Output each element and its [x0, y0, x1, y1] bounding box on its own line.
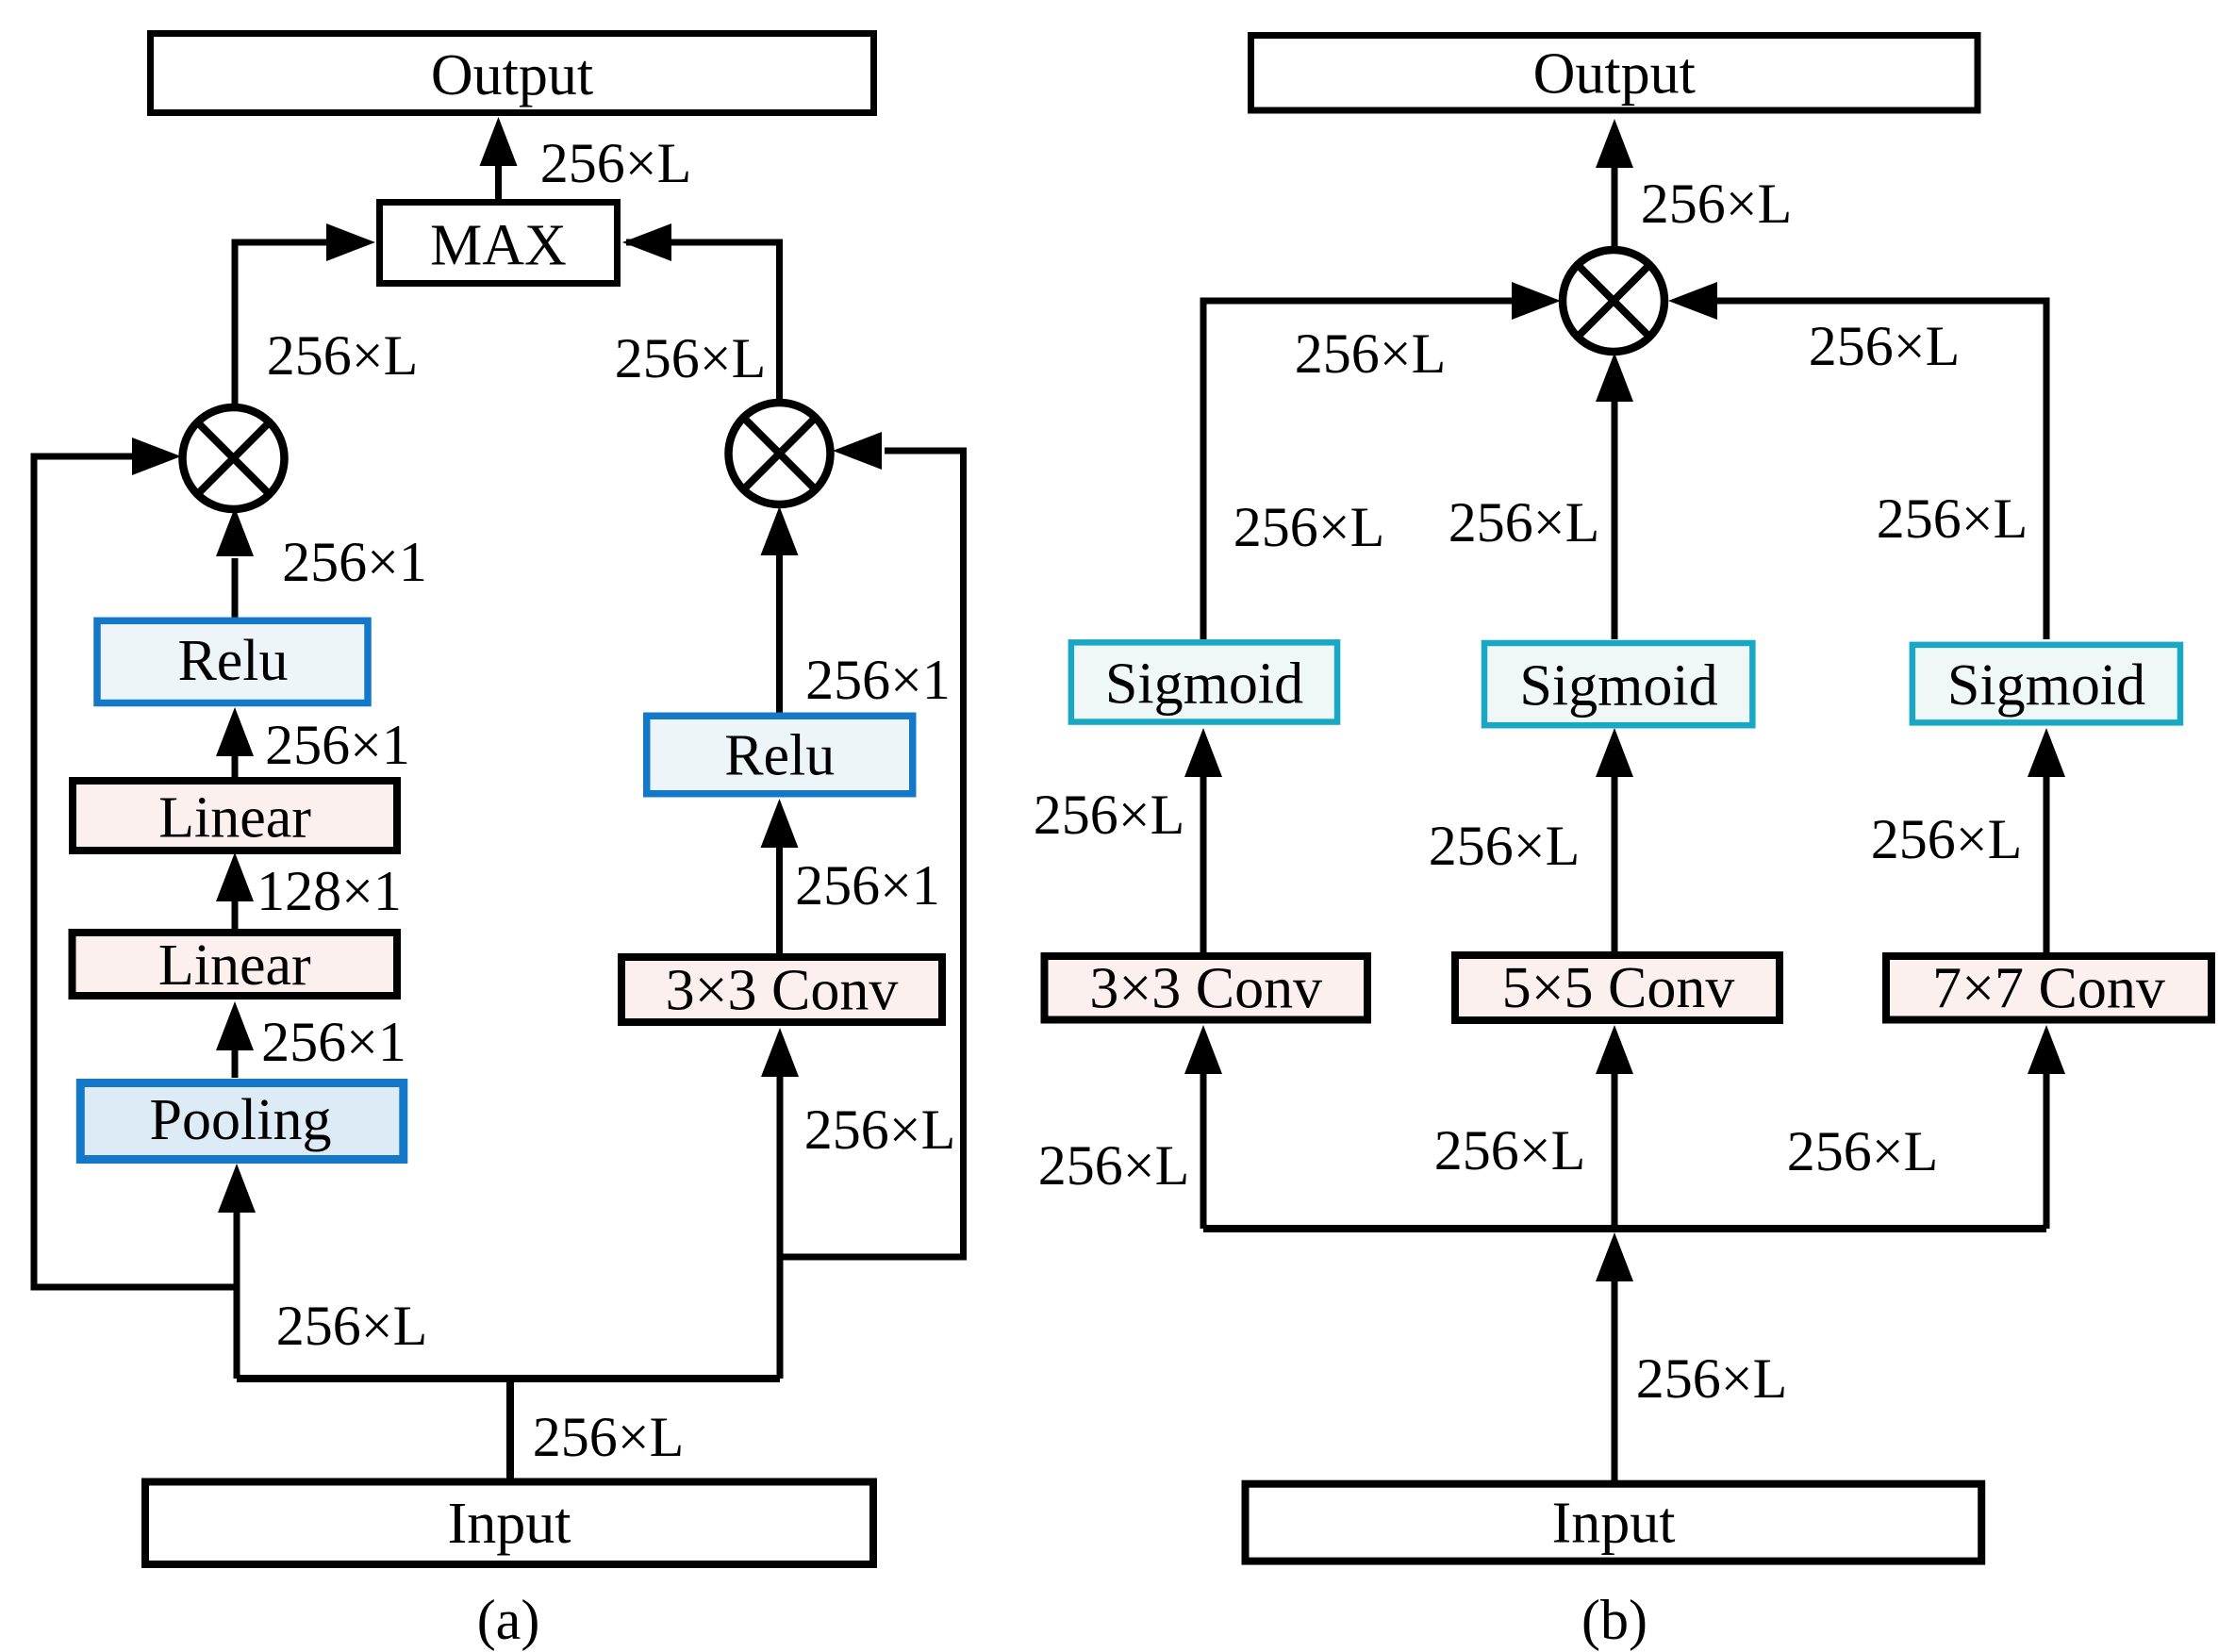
svg-text:3×3 Conv: 3×3 Conv — [1089, 957, 1322, 1021]
svg-text:256×1: 256×1 — [795, 854, 940, 917]
svg-text:256×1: 256×1 — [261, 1011, 406, 1073]
svg-text:256×L: 256×L — [533, 1406, 685, 1468]
svg-text:3×3 Conv: 3×3 Conv — [666, 959, 899, 1023]
svg-text:256×L: 256×L — [1034, 784, 1185, 846]
svg-text:256×1: 256×1 — [805, 649, 951, 711]
svg-text:5×5 Conv: 5×5 Conv — [1502, 956, 1735, 1020]
svg-text:256×L: 256×L — [1233, 496, 1385, 558]
svg-text:256×L: 256×L — [1429, 815, 1581, 877]
svg-text:256×L: 256×L — [276, 1295, 428, 1357]
svg-text:256×1: 256×1 — [282, 531, 427, 593]
svg-text:Sigmoid: Sigmoid — [1947, 653, 2145, 718]
svg-text:256×L: 256×L — [1877, 487, 2028, 550]
svg-text:256×L: 256×L — [1641, 173, 1793, 235]
svg-text:Linear: Linear — [158, 786, 311, 851]
svg-text:Output: Output — [1533, 42, 1696, 107]
svg-text:256×L: 256×L — [1295, 322, 1447, 385]
svg-text:256×L: 256×L — [615, 327, 767, 389]
svg-text:256×L: 256×L — [1434, 1119, 1586, 1181]
svg-text:256×L: 256×L — [1787, 1120, 1939, 1182]
svg-text:Pooling: Pooling — [150, 1088, 332, 1152]
svg-text:256×L: 256×L — [1449, 491, 1600, 553]
svg-text:256×L: 256×L — [804, 1099, 956, 1161]
svg-text:Input: Input — [1552, 1492, 1676, 1556]
svg-text:Sigmoid: Sigmoid — [1105, 653, 1303, 717]
svg-text:MAX: MAX — [430, 214, 567, 278]
svg-text:256×L: 256×L — [1636, 1347, 1788, 1410]
svg-text:(a): (a) — [477, 1589, 540, 1651]
svg-text:256×L: 256×L — [267, 324, 419, 387]
svg-text:Input: Input — [448, 1492, 571, 1556]
svg-text:128×1: 128×1 — [257, 860, 402, 922]
svg-text:Relu: Relu — [177, 629, 288, 693]
svg-text:Linear: Linear — [158, 933, 311, 998]
svg-text:256×1: 256×1 — [265, 714, 410, 776]
svg-text:256×L: 256×L — [1038, 1134, 1190, 1197]
svg-text:7×7 Conv: 7×7 Conv — [1932, 957, 2165, 1021]
svg-text:(b): (b) — [1581, 1589, 1647, 1651]
svg-text:256×L: 256×L — [1809, 315, 1961, 377]
svg-text:Output: Output — [431, 43, 593, 107]
svg-text:256×L: 256×L — [1871, 808, 2023, 870]
svg-text:Sigmoid: Sigmoid — [1519, 654, 1717, 719]
svg-text:256×L: 256×L — [540, 132, 692, 194]
svg-text:Relu: Relu — [724, 724, 835, 788]
